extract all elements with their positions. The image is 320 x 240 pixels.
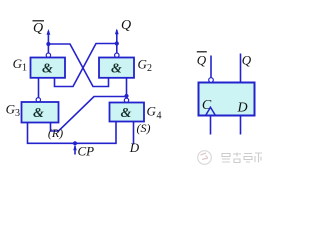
wire Qbar cross-couple to G2 input xyxy=(48,44,108,87)
D latch block symbol U1 xyxy=(199,83,255,116)
block output bubble xyxy=(209,78,214,83)
svg-text:C: C xyxy=(202,98,212,113)
wire G2 input from G4 output xyxy=(126,78,128,95)
wire Qbar lead with arrow xyxy=(47,29,51,53)
gate G3 output bubble xyxy=(36,98,40,102)
svg-text:D: D xyxy=(129,140,140,155)
wire CP input with up arrow xyxy=(73,145,77,155)
wire block Qbar lead xyxy=(210,56,212,78)
svg-text:&: & xyxy=(33,106,44,121)
gate G2 output bubble xyxy=(115,53,119,57)
svg-text:&: & xyxy=(111,62,122,77)
wire D input to G4 xyxy=(133,122,135,145)
gate G2 (NAND) xyxy=(99,58,134,78)
svg-text:3: 3 xyxy=(15,108,20,119)
wire G3 output to G1 input xyxy=(38,78,40,98)
svg-text:&: & xyxy=(121,106,132,121)
wire CP rail to G3 and G4 xyxy=(28,122,117,144)
gate G4 output bubble xyxy=(124,98,128,102)
svg-text:4: 4 xyxy=(157,111,162,122)
svg-text:G: G xyxy=(147,104,157,119)
node junction S-bar xyxy=(124,94,128,98)
wire Q cross-couple to G1 input xyxy=(55,44,117,87)
clock wedge xyxy=(206,107,216,115)
wire block Q lead xyxy=(240,54,242,83)
svg-text:&: & xyxy=(42,62,53,77)
svg-text:Q: Q xyxy=(33,21,43,36)
wire block C input xyxy=(210,116,212,135)
svg-text:Q: Q xyxy=(197,53,207,68)
svg-text:Q: Q xyxy=(242,53,252,68)
label block Qbar xyxy=(197,52,207,68)
wire S-bar feedback to G3 input xyxy=(51,97,127,132)
wire block D input xyxy=(240,116,242,135)
gate G1 output bubble xyxy=(46,53,50,57)
svg-text:(S): (S) xyxy=(137,121,151,135)
svg-text:Q: Q xyxy=(121,18,131,33)
gate G4 (NAND) xyxy=(110,103,145,122)
node junction on Q xyxy=(115,41,119,45)
node CP junction xyxy=(73,141,77,145)
svg-text:CP: CP xyxy=(78,144,95,159)
gate G3 (NAND) xyxy=(22,102,59,123)
svg-text:2: 2 xyxy=(147,63,152,74)
wire Q lead with arrow xyxy=(115,29,119,54)
node Qbar label xyxy=(33,21,45,36)
svg-text:G: G xyxy=(138,57,148,72)
svg-text:(R): (R) xyxy=(48,126,63,140)
node junction on Qbar xyxy=(46,42,50,46)
gate G1 (NAND) xyxy=(31,58,66,78)
svg-text:D: D xyxy=(236,101,247,116)
watermark logo xyxy=(198,151,212,165)
svg-text:1: 1 xyxy=(22,63,27,74)
watermark text xyxy=(222,153,262,163)
